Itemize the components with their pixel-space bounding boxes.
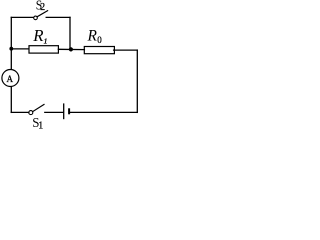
- wire left vertical upper: [10, 17, 12, 69]
- svg-text:1: 1: [44, 36, 48, 45]
- wire left vertical lower: [10, 87, 12, 113]
- ammeter A: [2, 70, 19, 87]
- wire middle row right segment: [114, 49, 138, 51]
- resistor R1: [29, 46, 58, 53]
- label R1: [32, 26, 47, 46]
- svg-text:1: 1: [38, 121, 43, 131]
- wire bottom right segment: [70, 111, 137, 113]
- wire top branch right segment: [46, 16, 70, 18]
- svg-text:A: A: [7, 74, 14, 84]
- wire middle row between R1 and R0: [58, 48, 84, 50]
- wire S2 branch vertical down to junction: [69, 17, 71, 49]
- svg-text:2: 2: [40, 2, 45, 13]
- wire top branch left segment: [11, 16, 33, 18]
- battery: [64, 103, 69, 119]
- label R0: [87, 28, 103, 45]
- wire middle row left segment: [11, 48, 28, 50]
- label S1: [32, 116, 43, 132]
- switch S1: [29, 104, 44, 114]
- svg-text:R: R: [87, 28, 98, 45]
- wire right vertical: [136, 50, 138, 112]
- node junction of S2 branch: [69, 47, 73, 51]
- wire bottom left segment: [11, 111, 29, 113]
- svg-text:R: R: [32, 26, 43, 45]
- wire between battery and S1: [45, 111, 63, 113]
- resistor R0: [84, 47, 114, 54]
- svg-text:0: 0: [97, 35, 102, 45]
- node junction left (ammeter branch): [9, 47, 13, 51]
- switch S2: [34, 11, 48, 20]
- label S2: [36, 0, 45, 14]
